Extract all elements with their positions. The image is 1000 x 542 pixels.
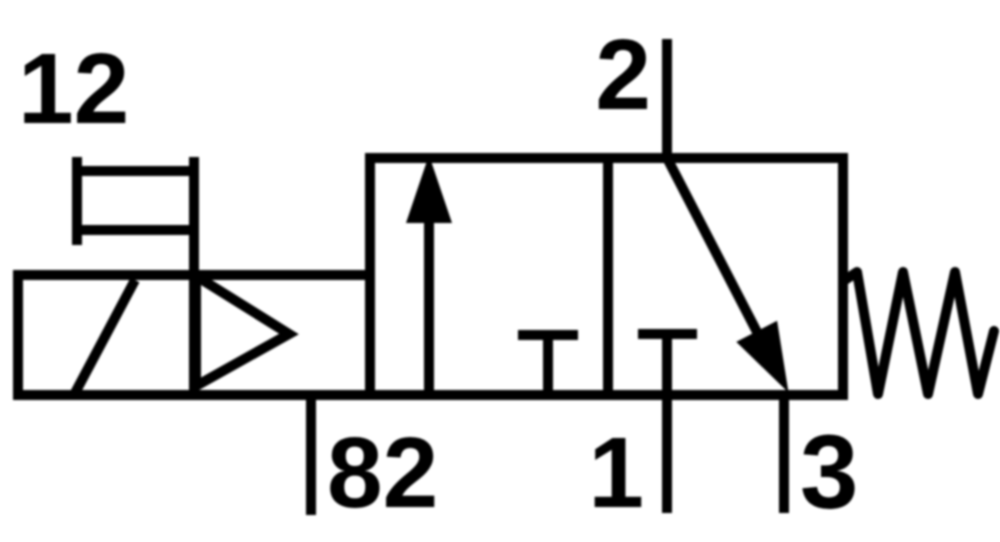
svg-text:12: 12: [18, 33, 129, 145]
svg-text:82: 82: [327, 417, 438, 529]
svg-text:1: 1: [588, 417, 644, 529]
svg-text:3: 3: [800, 414, 858, 531]
svg-text:2: 2: [595, 19, 651, 131]
